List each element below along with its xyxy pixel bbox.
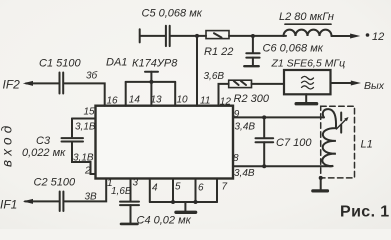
svg-text:4: 4 (152, 183, 158, 194)
svg-text:7: 7 (222, 182, 228, 193)
svg-text:3,4В: 3,4В (235, 122, 256, 133)
svg-text:вход: вход (0, 122, 15, 167)
svg-text:С6 0,068 мк: С6 0,068 мк (263, 43, 324, 55)
svg-text:16: 16 (107, 96, 119, 107)
svg-text:С5 0,068 мк: С5 0,068 мк (142, 8, 203, 20)
svg-text:3,1В: 3,1В (73, 153, 94, 164)
svg-text:5: 5 (175, 182, 181, 193)
svg-text:9: 9 (234, 109, 240, 120)
svg-text:L2 80 мкГн: L2 80 мкГн (279, 11, 334, 23)
svg-text:12: 12 (372, 31, 384, 43)
svg-text:0,022 мк: 0,022 мк (22, 147, 66, 159)
svg-text:L1: L1 (361, 139, 373, 151)
svg-text:IF1: IF1 (0, 198, 17, 212)
svg-text:6: 6 (198, 183, 204, 194)
svg-text:IF2: IF2 (3, 78, 21, 92)
svg-text:DA1: DA1 (106, 57, 127, 69)
svg-text:1: 1 (107, 178, 113, 189)
svg-text:R1 22: R1 22 (204, 46, 233, 58)
svg-text:2: 2 (84, 166, 91, 177)
svg-text:С1 5100: С1 5100 (39, 58, 81, 70)
svg-text:3б: 3б (86, 70, 98, 82)
svg-text:К174УР8: К174УР8 (132, 58, 178, 70)
svg-text:14: 14 (129, 95, 141, 106)
svg-text:Z1 SFE6,5 МГц: Z1 SFE6,5 МГц (271, 58, 346, 70)
svg-text:12: 12 (220, 96, 232, 107)
svg-text:Вых: Вых (364, 80, 385, 92)
svg-text:3,1В: 3,1В (75, 122, 96, 133)
svg-text:3,6В: 3,6В (204, 71, 225, 82)
svg-text:Рис. 1: Рис. 1 (340, 204, 390, 221)
svg-text:С4 0,02 мк: С4 0,02 мк (137, 215, 192, 227)
svg-text:С2 5100: С2 5100 (34, 177, 76, 189)
svg-text:С7 100: С7 100 (276, 137, 312, 149)
svg-text:R2 300: R2 300 (234, 93, 270, 105)
svg-text:С3: С3 (36, 135, 51, 147)
svg-text:1,6В: 1,6В (111, 186, 132, 197)
svg-text:3В: 3В (85, 192, 98, 203)
svg-text:15: 15 (84, 107, 96, 118)
svg-text:3: 3 (133, 178, 139, 189)
svg-text:13: 13 (151, 95, 163, 106)
svg-text:11: 11 (200, 96, 210, 107)
svg-text:10: 10 (177, 95, 189, 106)
svg-text:8: 8 (233, 153, 239, 164)
svg-text:3,4В: 3,4В (234, 168, 255, 179)
